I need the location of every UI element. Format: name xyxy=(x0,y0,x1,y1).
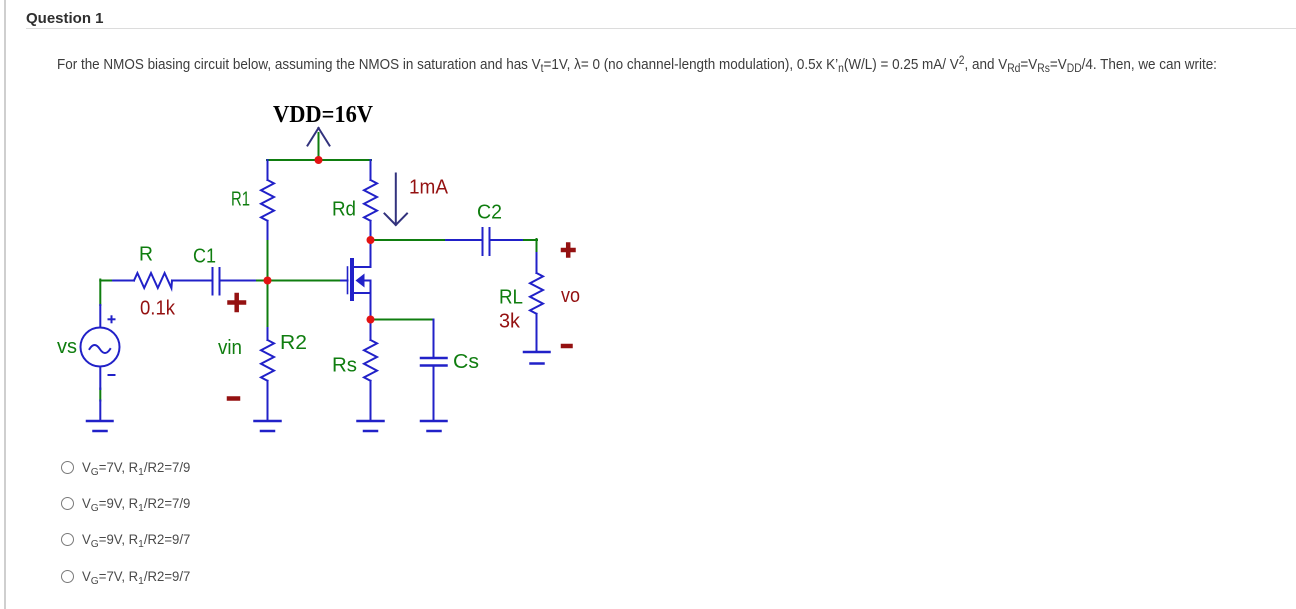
svg-text:Rs: Rs xyxy=(332,355,357,377)
svg-text:vo: vo xyxy=(561,285,580,307)
svg-text:RL: RL xyxy=(499,287,523,309)
svg-text:1mA: 1mA xyxy=(409,177,449,199)
svg-text:vs: vs xyxy=(57,336,77,358)
svg-text:0.1k: 0.1k xyxy=(140,298,176,320)
svg-text:Rd: Rd xyxy=(332,199,356,221)
svg-text:C1: C1 xyxy=(193,246,216,268)
svg-text:R: R xyxy=(139,244,153,266)
svg-text:R1: R1 xyxy=(231,189,250,211)
svg-text:vin: vin xyxy=(218,337,242,359)
svg-text:Cs: Cs xyxy=(453,351,479,373)
svg-text:R2: R2 xyxy=(280,332,307,354)
svg-text:3k: 3k xyxy=(499,311,521,333)
svg-text:C2: C2 xyxy=(477,202,502,224)
svg-text:VDD=16V: VDD=16V xyxy=(273,102,374,128)
